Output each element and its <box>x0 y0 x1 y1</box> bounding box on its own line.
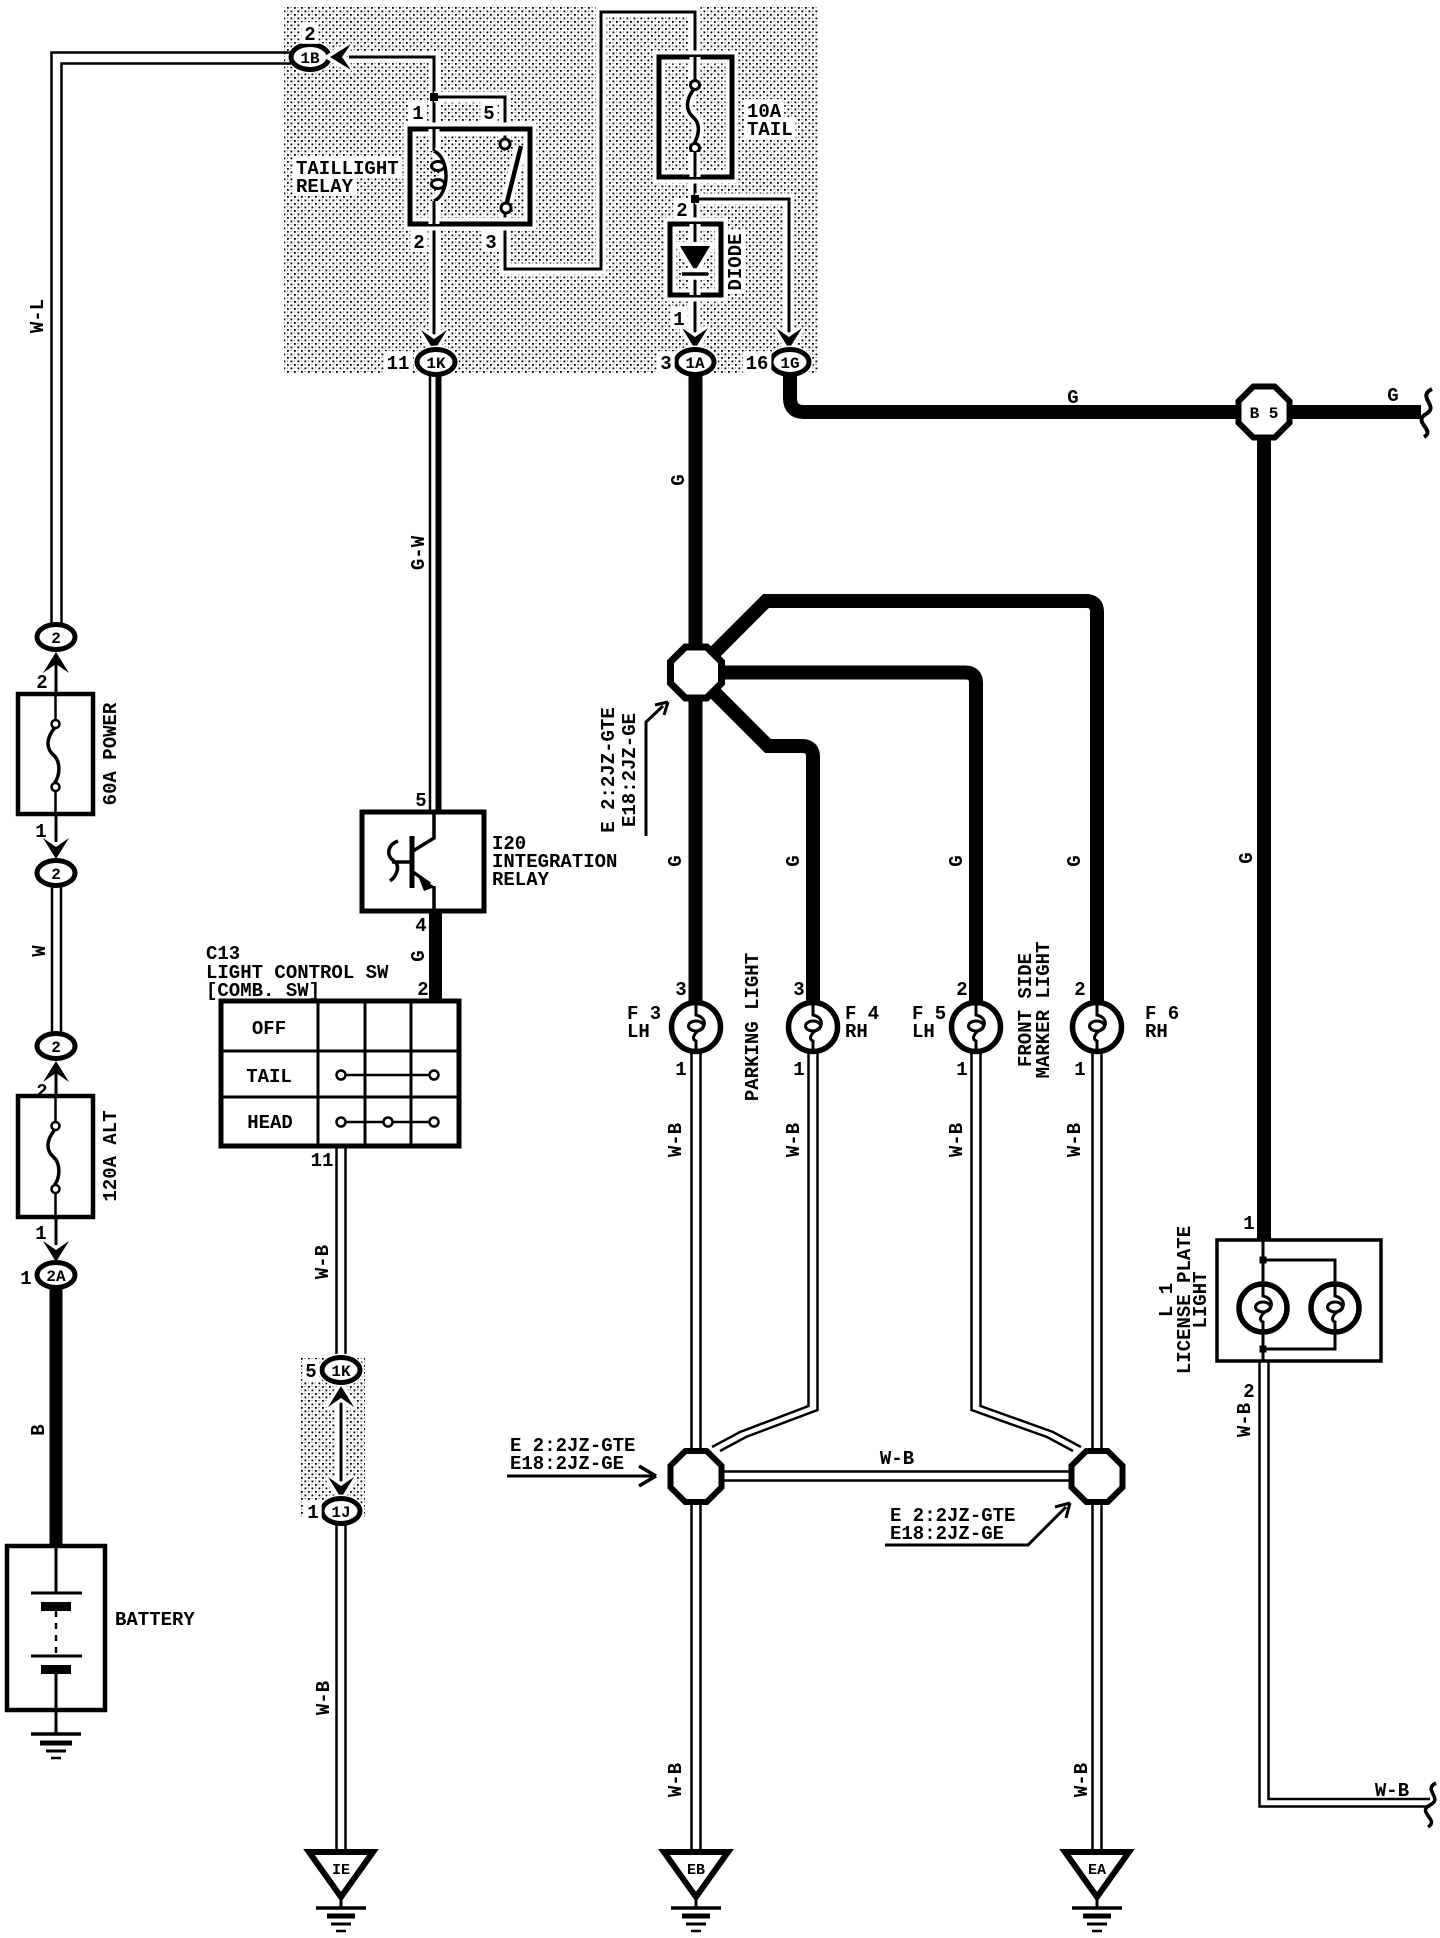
svg-text:1: 1 <box>675 1059 686 1081</box>
svg-text:2: 2 <box>676 200 687 222</box>
svg-text:W-B: W-B <box>312 1245 334 1279</box>
svg-text:1G: 1G <box>780 355 799 373</box>
svg-text:2: 2 <box>51 866 61 884</box>
svg-text:RH: RH <box>1145 1021 1168 1043</box>
svg-text:G: G <box>1236 852 1258 863</box>
svg-text:G: G <box>1064 855 1086 866</box>
svg-text:2: 2 <box>417 979 428 1001</box>
svg-text:E18:2JZ-GE: E18:2JZ-GE <box>619 713 641 827</box>
svg-text:G: G <box>665 855 687 866</box>
svg-text:W-B: W-B <box>1234 1403 1256 1437</box>
svg-text:1: 1 <box>793 1059 804 1081</box>
svg-text:3: 3 <box>793 979 804 1001</box>
svg-text:IE: IE <box>332 1862 350 1879</box>
svg-text:EA: EA <box>1088 1862 1106 1879</box>
svg-text:5: 5 <box>415 790 426 812</box>
svg-text:120A ALT: 120A ALT <box>100 1110 122 1201</box>
svg-text:W-B: W-B <box>880 1448 914 1470</box>
svg-text:PARKING LIGHT: PARKING LIGHT <box>742 953 764 1101</box>
svg-text:1: 1 <box>35 1223 46 1245</box>
svg-text:1: 1 <box>412 103 423 125</box>
svg-text:W-B: W-B <box>665 1123 687 1157</box>
svg-text:TAIL: TAIL <box>246 1066 292 1088</box>
svg-text:2: 2 <box>36 672 47 694</box>
svg-text:16: 16 <box>746 353 769 375</box>
svg-text:1K: 1K <box>426 355 446 373</box>
svg-text:11: 11 <box>311 1150 334 1172</box>
svg-text:W-L: W-L <box>27 299 49 333</box>
svg-text:W: W <box>29 945 51 957</box>
svg-text:G: G <box>946 855 968 866</box>
svg-text:BATTERY: BATTERY <box>115 1609 195 1631</box>
svg-text:11: 11 <box>387 353 410 375</box>
svg-text:W-B: W-B <box>1071 1763 1093 1797</box>
svg-text:2: 2 <box>413 232 424 254</box>
svg-text:5: 5 <box>305 1361 316 1383</box>
svg-text:RELAY: RELAY <box>296 176 354 198</box>
svg-text:DIODE: DIODE <box>725 233 747 290</box>
svg-text:2: 2 <box>51 630 61 648</box>
svg-text:E18:2JZ-GE: E18:2JZ-GE <box>510 1453 624 1475</box>
svg-text:G: G <box>668 474 690 485</box>
svg-text:3: 3 <box>660 353 671 375</box>
svg-text:1K: 1K <box>331 1363 351 1381</box>
svg-text:EB: EB <box>687 1862 705 1879</box>
svg-text:3: 3 <box>485 232 496 254</box>
svg-text:G: G <box>783 855 805 866</box>
svg-text:1: 1 <box>673 309 684 331</box>
svg-text:3: 3 <box>675 979 686 1001</box>
svg-text:1: 1 <box>1243 1213 1254 1235</box>
svg-text:G-W: G-W <box>408 535 430 570</box>
svg-text:1: 1 <box>956 1059 967 1081</box>
svg-text:G: G <box>1067 387 1078 409</box>
svg-text:2: 2 <box>956 979 967 1001</box>
svg-text:B: B <box>28 1424 50 1435</box>
svg-text:1: 1 <box>307 1502 318 1524</box>
svg-text:2: 2 <box>1243 1381 1254 1403</box>
svg-text:2: 2 <box>1074 979 1085 1001</box>
svg-text:2A: 2A <box>46 1268 66 1286</box>
svg-text:LH: LH <box>912 1021 935 1043</box>
svg-text:W-B: W-B <box>1375 1780 1409 1802</box>
svg-text:LH: LH <box>627 1021 650 1043</box>
svg-text:1A: 1A <box>685 355 705 373</box>
svg-text:2: 2 <box>51 1039 61 1057</box>
svg-text:HEAD: HEAD <box>247 1112 293 1134</box>
svg-text:2: 2 <box>304 24 315 46</box>
svg-text:RH: RH <box>845 1021 868 1043</box>
svg-text:1B: 1B <box>300 50 320 68</box>
svg-text:1: 1 <box>1074 1059 1085 1081</box>
svg-text:W-B: W-B <box>1064 1123 1086 1157</box>
svg-text:E 2:2JZ-GTE: E 2:2JZ-GTE <box>598 707 620 832</box>
svg-text:W-B: W-B <box>783 1123 805 1157</box>
svg-text:1J: 1J <box>331 1504 350 1522</box>
svg-text:1: 1 <box>20 1268 31 1290</box>
svg-text:W-B: W-B <box>665 1763 687 1797</box>
svg-text:MARKER LIGHT: MARKER LIGHT <box>1033 942 1055 1079</box>
svg-text:4: 4 <box>415 915 426 937</box>
svg-text:60A POWER: 60A POWER <box>100 702 122 805</box>
svg-text:W-B: W-B <box>946 1123 968 1157</box>
svg-text:TAIL: TAIL <box>747 119 793 141</box>
svg-text:W-B: W-B <box>313 1681 335 1715</box>
svg-text:OFF: OFF <box>252 1018 286 1040</box>
svg-text:2: 2 <box>36 1081 47 1103</box>
svg-text:G: G <box>1387 385 1398 407</box>
svg-text:5: 5 <box>483 103 494 125</box>
svg-text:LIGHT: LIGHT <box>1190 1271 1212 1328</box>
svg-text:B 5: B 5 <box>1250 405 1279 423</box>
svg-text:G: G <box>408 950 430 961</box>
svg-text:RELAY: RELAY <box>492 869 550 891</box>
svg-text:E18:2JZ-GE: E18:2JZ-GE <box>890 1523 1004 1545</box>
